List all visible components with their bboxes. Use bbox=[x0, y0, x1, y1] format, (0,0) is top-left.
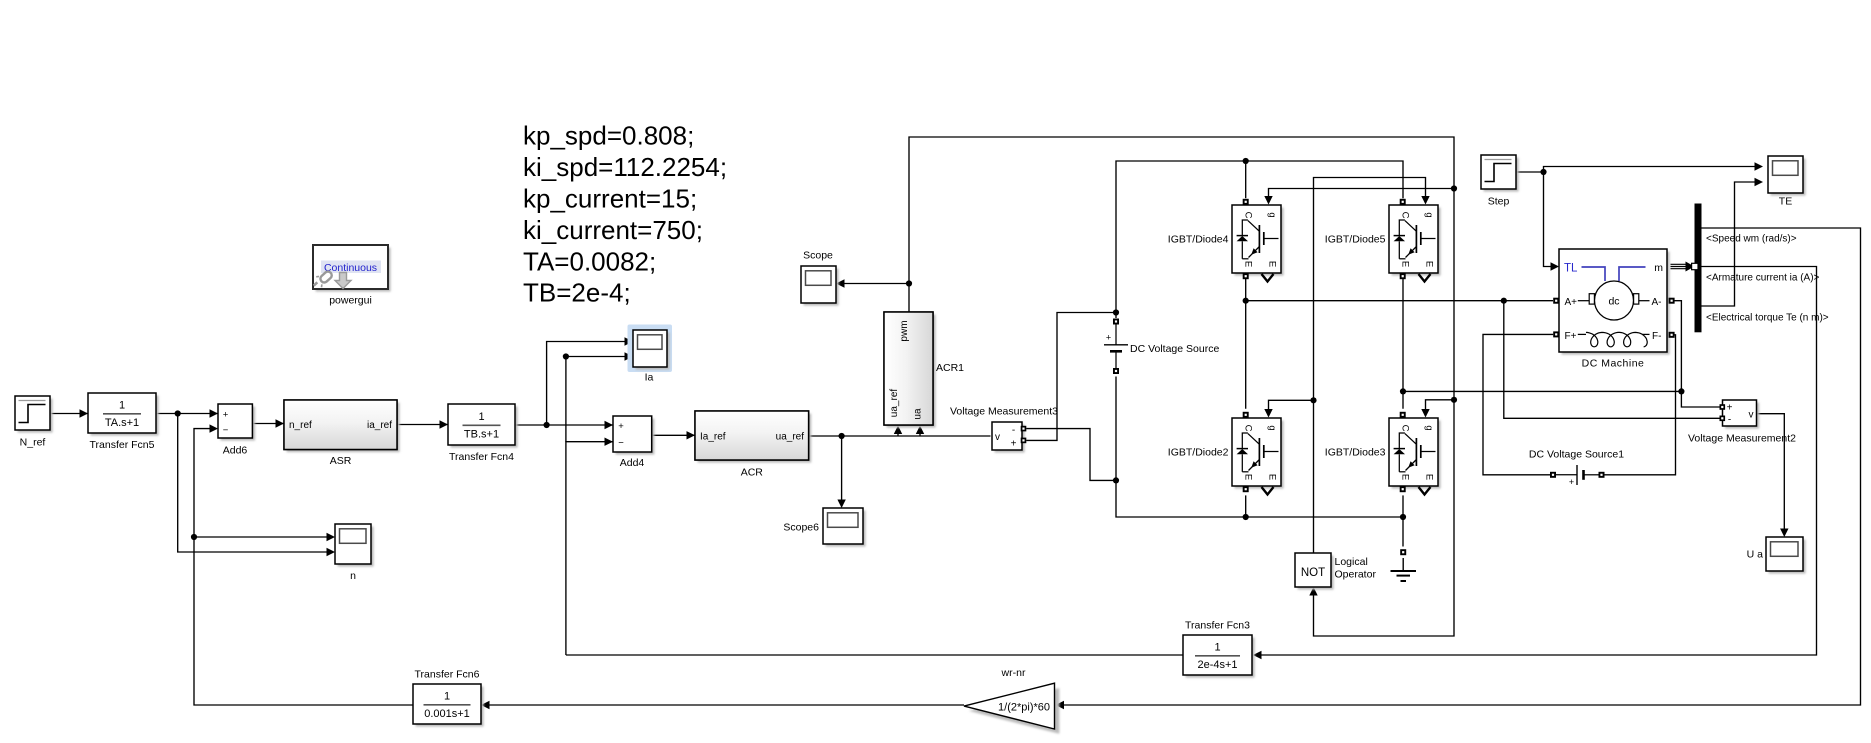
svg-text:ki_spd=112.2254;: ki_spd=112.2254; bbox=[523, 152, 727, 182]
scope Scope mirrored bbox=[804, 269, 839, 306]
svg-text:+: + bbox=[1011, 439, 1017, 450]
svg-text:Voltage Measurement2: Voltage Measurement2 bbox=[1688, 433, 1796, 445]
svg-text:C: C bbox=[1400, 425, 1411, 432]
svg-text:v: v bbox=[1749, 410, 1754, 421]
DC Voltage Source1 battery bbox=[1550, 472, 1556, 478]
step source Step bbox=[1484, 158, 1519, 192]
wire pwm to IGBT4 gate bbox=[1269, 189, 1455, 198]
wire branch up to Ia scope input1 bbox=[547, 342, 633, 426]
subsystem ACR1 pwm generator bbox=[887, 315, 936, 428]
junction current feedback to Ia scope bbox=[563, 353, 569, 359]
svg-text:−: − bbox=[223, 425, 229, 436]
svg-text:IGBT/Diode3: IGBT/Diode3 bbox=[1325, 447, 1386, 459]
powergui down arrow icon bbox=[335, 273, 351, 289]
svg-text:+: + bbox=[1106, 333, 1111, 343]
svg-text:F-: F- bbox=[1652, 331, 1661, 342]
junction pwm to IGBT4 gate bbox=[1451, 185, 1457, 191]
wire Add6 to ASR bbox=[252, 423, 284, 425]
svg-text:m: m bbox=[1654, 262, 1663, 274]
svg-text:TE: TE bbox=[1779, 196, 1792, 208]
svg-text:ua_ref: ua_ref bbox=[889, 389, 900, 418]
svg-text:ia_ref: ia_ref bbox=[367, 420, 392, 431]
svg-text:pwm: pwm bbox=[899, 320, 910, 341]
svg-text:ki_current=750;: ki_current=750; bbox=[523, 215, 703, 245]
svg-text:+: + bbox=[223, 410, 229, 421]
svg-text:Step: Step bbox=[1488, 196, 1510, 208]
svg-text:E: E bbox=[1400, 474, 1411, 480]
wire armature current tap bbox=[1261, 267, 1817, 656]
voltage measurement block Voltage Measurement2 bbox=[1725, 403, 1759, 429]
transfer function Transfer Fcn6 bbox=[416, 687, 484, 727]
wire IGBT4 collector drop bbox=[1245, 161, 1247, 198]
wire IGBT4 emitter to A plus rail bbox=[1245, 274, 1247, 408]
transfer function Transfer Fcn5 bbox=[91, 396, 159, 436]
junction Step output bbox=[1540, 169, 1546, 175]
wire N_ref to Transfer Fcn5 bbox=[50, 413, 88, 415]
svg-text:Scope6: Scope6 bbox=[783, 522, 819, 534]
wire Transfer Fcn3 output to Add4 minus bbox=[566, 654, 1183, 656]
junction ua_ref to Scope6 bbox=[839, 433, 845, 439]
svg-text:DC Voltage Source1: DC Voltage Source1 bbox=[1529, 449, 1624, 461]
svg-text:1: 1 bbox=[444, 691, 450, 703]
svg-text:IGBT/Diode2: IGBT/Diode2 bbox=[1168, 447, 1229, 459]
transfer function Transfer Fcn4 bbox=[451, 407, 518, 448]
wire NOT output to IGBT5 gate bbox=[1314, 178, 1426, 554]
junction DC plus VM3 tap bbox=[1113, 309, 1119, 315]
wire F plus to battery bbox=[1483, 334, 1553, 474]
wire A minus to VM2 plus bbox=[1674, 301, 1719, 407]
DC Machine armature circle bbox=[1595, 281, 1634, 320]
IGBT/Diode5 block bbox=[1392, 208, 1441, 276]
svg-text:g: g bbox=[1267, 425, 1278, 430]
svg-text:TA.s+1: TA.s+1 bbox=[105, 417, 139, 429]
IGBT/Diode4 block bbox=[1235, 208, 1284, 276]
svg-text:A-: A- bbox=[1652, 297, 1662, 308]
junction n_ref branch bbox=[175, 410, 181, 416]
scope Ua bbox=[1769, 540, 1806, 574]
svg-text:-: - bbox=[1728, 415, 1731, 426]
wire IGBT3 emitter drop bbox=[1402, 495, 1404, 517]
svg-text:g: g bbox=[1424, 212, 1435, 217]
wire Transfer Fcn6 output to Add6 minus bbox=[194, 429, 413, 705]
svg-text:n_ref: n_ref bbox=[289, 420, 312, 431]
junction A plus to VM2 bbox=[1501, 298, 1507, 304]
junction A minus rail bbox=[1400, 388, 1406, 394]
svg-text:+: + bbox=[1727, 403, 1733, 414]
wire A plus rail to DC Machine bbox=[1246, 300, 1553, 302]
svg-text:<Electrical torque Te (n m)>: <Electrical torque Te (n m)> bbox=[1706, 313, 1829, 324]
transfer function Transfer Fcn3 bbox=[1186, 638, 1255, 678]
junction NOT output to IGBT2 gate bbox=[1310, 397, 1316, 403]
svg-text:E: E bbox=[1267, 474, 1278, 480]
wire DC minus rail bbox=[1116, 377, 1403, 518]
svg-text:ua_ref: ua_ref bbox=[776, 432, 805, 443]
svg-text:2e-4s+1: 2e-4s+1 bbox=[1197, 659, 1237, 671]
selection highlight of scope Ia bbox=[628, 325, 673, 373]
wire ACR ua_ref output rail bbox=[809, 435, 991, 437]
svg-text:C: C bbox=[1243, 425, 1254, 432]
svg-text:+: + bbox=[1569, 477, 1574, 487]
svg-text:E: E bbox=[1243, 261, 1254, 267]
svg-text:Transfer Fcn3: Transfer Fcn3 bbox=[1185, 620, 1250, 632]
wire F minus to battery bbox=[1604, 335, 1675, 475]
svg-text:n: n bbox=[350, 570, 356, 582]
svg-text:Add6: Add6 bbox=[223, 445, 248, 457]
svg-text:A+: A+ bbox=[1565, 297, 1578, 308]
junction A minus net bbox=[1678, 388, 1684, 394]
junction pwm to IGBT3 gate bbox=[1451, 397, 1457, 403]
svg-text:IGBT/Diode5: IGBT/Diode5 bbox=[1325, 234, 1386, 246]
wire A minus rail bbox=[1403, 390, 1681, 392]
svg-text:DC Machine: DC Machine bbox=[1582, 358, 1645, 370]
wire down to Scope6 bbox=[841, 436, 843, 503]
svg-text:1: 1 bbox=[1214, 642, 1220, 654]
wire gain output to Transfer Fcn6 bbox=[489, 704, 965, 706]
junction ia_ref to Ia scope bbox=[544, 422, 550, 428]
DC Machine ports bbox=[1553, 298, 1559, 304]
wire pwm net from ACR1 top to gate column bbox=[909, 137, 1454, 636]
svg-text:TB.s+1: TB.s+1 bbox=[464, 429, 499, 441]
svg-text:IGBT/Diode4: IGBT/Diode4 bbox=[1168, 234, 1229, 246]
svg-text:E: E bbox=[1243, 474, 1254, 480]
ground symbol bbox=[1400, 549, 1406, 555]
svg-text:NOT: NOT bbox=[1301, 567, 1325, 579]
junction DC minus VM3 tap bbox=[1113, 477, 1119, 483]
wire A plus to VM2 minus bbox=[1504, 301, 1720, 419]
svg-text:E: E bbox=[1424, 474, 1435, 480]
logical operator NOT block bbox=[1298, 556, 1334, 590]
wire IGBT5 emitter to IGBT3 collector bbox=[1402, 274, 1404, 408]
wire branch to Ia scope input2 bbox=[566, 357, 633, 442]
svg-text:ASR: ASR bbox=[330, 455, 352, 467]
IGBT/Diode2 block bbox=[1235, 421, 1284, 489]
wire IGBT2 emitter drop bbox=[1245, 495, 1247, 517]
wire pwm branch to Scope bbox=[844, 283, 909, 285]
svg-text:U a: U a bbox=[1747, 549, 1764, 561]
svg-text:ACR: ACR bbox=[741, 467, 764, 479]
wire VM3 plus to DC plus bbox=[1026, 313, 1116, 441]
DC Voltage Source battery bbox=[1113, 319, 1119, 325]
svg-text:0.001s+1: 0.001s+1 bbox=[424, 708, 470, 720]
subsystem ACR current regulator bbox=[698, 414, 812, 463]
svg-text:kp_current=15;: kp_current=15; bbox=[523, 184, 697, 214]
wire stub up into ACR1 ua_ref port bbox=[897, 432, 899, 436]
wire Add4 to ACR bbox=[652, 434, 695, 436]
svg-text:powergui: powergui bbox=[329, 295, 372, 307]
powergui broken link icon bbox=[314, 270, 334, 287]
powergui block bbox=[316, 248, 391, 292]
svg-text:−: − bbox=[618, 438, 624, 449]
wire current feedback up to Add4 minus bbox=[566, 442, 613, 655]
DC Machine m output vector signal bbox=[1671, 263, 1688, 265]
svg-text:Ia_ref: Ia_ref bbox=[700, 432, 726, 443]
svg-text:Logical: Logical bbox=[1335, 556, 1368, 568]
svg-text:<Armature current ia (A)>: <Armature current ia (A)> bbox=[1706, 273, 1820, 284]
svg-text:TL: TL bbox=[1564, 263, 1578, 275]
junction A plus rail bbox=[1243, 298, 1249, 304]
svg-text:Add4: Add4 bbox=[620, 457, 645, 469]
wire speed tap feedback bbox=[1063, 228, 1861, 705]
voltage measurement block Voltage Measurement3 bbox=[995, 425, 1025, 453]
junction IGBT3 emitter ground bbox=[1400, 514, 1406, 520]
sum block Add6 bbox=[221, 407, 255, 441]
svg-text:-: - bbox=[1012, 425, 1015, 436]
svg-text:Ia: Ia bbox=[645, 372, 654, 384]
DC Machine blue TL lines bbox=[1582, 267, 1646, 281]
svg-text:Operator: Operator bbox=[1335, 569, 1377, 581]
gain block wr-nr bbox=[969, 688, 1059, 734]
svg-text:F+: F+ bbox=[1565, 331, 1577, 342]
svg-text:Transfer Fcn6: Transfer Fcn6 bbox=[415, 669, 480, 681]
svg-text:ACR1: ACR1 bbox=[936, 362, 964, 374]
wire ASR ia_ref to Transfer Fcn4 bbox=[397, 424, 448, 426]
wire pwm to IGBT3 gate bbox=[1426, 400, 1455, 411]
svg-text:wr-nr: wr-nr bbox=[1001, 667, 1026, 679]
step source N_ref bbox=[18, 399, 53, 433]
wire Transfer Fcn4 to Add4 plus bbox=[515, 424, 613, 426]
svg-text:1/(2*pi)*60: 1/(2*pi)*60 bbox=[998, 702, 1050, 714]
junction pwm to Scope bbox=[906, 280, 912, 286]
wire branch to scope n input1 bbox=[194, 536, 328, 538]
scope n bbox=[338, 527, 374, 567]
junction IGBT2 emitter bbox=[1243, 514, 1249, 520]
IGBT/Diode3 block bbox=[1392, 421, 1441, 489]
bus selector bar bbox=[1695, 204, 1702, 333]
junction speed feedback to scope n bbox=[191, 534, 197, 540]
svg-text:N_ref: N_ref bbox=[20, 437, 46, 449]
wire DC plus rail to IGBT collectors bbox=[1116, 161, 1403, 318]
wire Step to TE input1 bbox=[1544, 167, 1756, 173]
svg-text:Scope: Scope bbox=[803, 250, 833, 262]
wire NOT output to IGBT2 gate bbox=[1269, 400, 1314, 410]
svg-text:ua: ua bbox=[913, 408, 924, 420]
svg-text:DC Voltage Source: DC Voltage Source bbox=[1130, 343, 1219, 355]
scope TE bbox=[1771, 159, 1806, 196]
svg-text:1: 1 bbox=[478, 411, 484, 423]
wire n_ref branch down to scope n input2 bbox=[178, 414, 328, 553]
svg-text:Continuous: Continuous bbox=[324, 262, 377, 274]
svg-text:<Speed wm (rad/s)>: <Speed wm (rad/s)> bbox=[1706, 234, 1797, 245]
svg-text:Voltage Measurement3: Voltage Measurement3 bbox=[950, 406, 1058, 418]
svg-text:Transfer Fcn4: Transfer Fcn4 bbox=[449, 451, 514, 463]
DC Machine brushes bbox=[1589, 294, 1594, 304]
svg-text:v: v bbox=[995, 432, 1000, 443]
svg-text:kp_spd=0.808;: kp_spd=0.808; bbox=[523, 121, 694, 151]
wire Step output bbox=[1516, 171, 1544, 173]
svg-text:g: g bbox=[1267, 212, 1278, 217]
wire stub up into ACR1 ua port bbox=[919, 432, 921, 436]
scope Ia bbox=[636, 333, 670, 370]
svg-text:Transfer Fcn5: Transfer Fcn5 bbox=[90, 439, 155, 451]
subsystem ASR speed regulator bbox=[287, 403, 400, 453]
svg-text:g: g bbox=[1424, 425, 1435, 430]
DC Machine field coil bbox=[1586, 332, 1647, 346]
svg-text:1: 1 bbox=[119, 400, 125, 412]
DC Machine armature leads bbox=[1578, 300, 1589, 302]
wire ground drop bbox=[1402, 517, 1404, 547]
svg-text:dc: dc bbox=[1608, 296, 1619, 308]
DC Machine block bbox=[1562, 252, 1670, 355]
svg-text:E: E bbox=[1400, 261, 1411, 267]
svg-text:E: E bbox=[1424, 261, 1435, 267]
wire VM2 output to Ua scope bbox=[1757, 414, 1785, 531]
wire VM3 minus to DC minus bbox=[1026, 429, 1116, 481]
svg-text:TB=2e-4;: TB=2e-4; bbox=[523, 278, 631, 308]
svg-text:TA=0.0082;: TA=0.0082; bbox=[523, 246, 656, 276]
svg-text:+: + bbox=[618, 421, 624, 432]
junction IGBT4 collector bbox=[1243, 158, 1249, 164]
svg-text:E: E bbox=[1267, 261, 1278, 267]
svg-text:C: C bbox=[1243, 212, 1254, 219]
wire Step to DC Machine TL bbox=[1544, 172, 1552, 267]
wire torque tap to TE input2 bbox=[1702, 182, 1756, 306]
wire Transfer Fcn5 to Add6 plus bbox=[156, 413, 218, 415]
scope Scope6 bbox=[826, 511, 866, 547]
svg-text:C: C bbox=[1400, 212, 1411, 219]
sum block Add4 bbox=[616, 419, 655, 455]
